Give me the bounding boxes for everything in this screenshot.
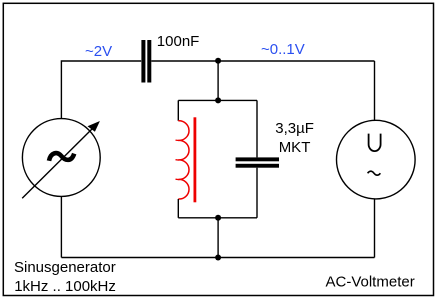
- wire: top rail to voltmeter top: [374, 61, 376, 121]
- generator G1 circle: [22, 119, 100, 197]
- node junction bottom rail: [215, 255, 221, 261]
- capacitor C1 plates: [141, 40, 151, 83]
- wire: tank top edge: [178, 99, 257, 101]
- svg-text:~2V: ~2V: [85, 43, 112, 60]
- svg-text:~0..1V: ~0..1V: [261, 41, 305, 58]
- value label 3,3uF MKT: [275, 120, 314, 156]
- svg-text:AC-Voltmeter: AC-Voltmeter: [326, 274, 415, 291]
- wire: tank right branch upper: [256, 100, 258, 157]
- wire: tank right branch lower: [256, 168, 258, 218]
- node junction tank bottom: [215, 215, 221, 221]
- generator sine symbol: [49, 153, 74, 161]
- inductor L coil: [178, 121, 189, 199]
- svg-text:1kHz .. 100kHz: 1kHz .. 100kHz: [14, 278, 116, 295]
- wire: tank bottom edge: [178, 217, 257, 219]
- svg-text:100nF: 100nF: [157, 33, 200, 50]
- voltmeter circle: [337, 120, 416, 199]
- node junction tank top: [215, 97, 221, 103]
- wire: tank bottom to bottom rail: [217, 218, 219, 258]
- wire: generator bottom to bottom rail: [60, 196, 62, 257]
- svg-text:3,3µF: 3,3µF: [275, 120, 314, 137]
- capacitor C2 plates: [236, 157, 279, 167]
- svg-text:MKT: MKT: [279, 139, 311, 156]
- generator arrowhead: [88, 121, 100, 132]
- wire: tank left branch upper: [177, 100, 179, 120]
- wire: bottom rail: [61, 257, 374, 259]
- inductor coil cusp ticks: [176, 140, 179, 180]
- wire: top rail down to tank top: [217, 61, 219, 100]
- wire: tank left branch lower: [177, 199, 179, 218]
- wire: capacitor to voltmeter top rail: [151, 60, 374, 62]
- generator adjustment arrow line: [22, 129, 92, 199]
- voltmeter ac tilde: [368, 171, 381, 175]
- wire: voltmeter bottom to bottom rail: [374, 198, 376, 257]
- wire: generator top to top rail: [61, 61, 141, 119]
- node junction top rail: [215, 58, 221, 64]
- inductor core bar: [194, 117, 197, 202]
- voltmeter U symbol: [369, 134, 381, 151]
- svg-text:Sinusgenerator: Sinusgenerator: [14, 259, 116, 276]
